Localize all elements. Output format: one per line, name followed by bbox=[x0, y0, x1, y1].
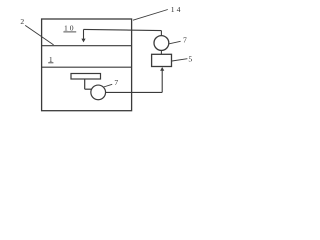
shelf / bracket inside tank bbox=[71, 74, 101, 80]
label 1 (underlined) bbox=[48, 55, 53, 64]
pipe: pump 7 down to unit 5 bbox=[160, 50, 162, 54]
return pipe from in-tank pump to unit 5 (with up arrow) bbox=[105, 67, 164, 92]
leader line for 5 bbox=[172, 59, 188, 61]
svg-text:5: 5 bbox=[188, 54, 192, 63]
leader line for 2 bbox=[25, 25, 53, 45]
label 10 (underlined) bbox=[63, 24, 76, 33]
tank partition line (upper) bbox=[42, 45, 132, 47]
leader line for 7 (external pump) bbox=[169, 41, 181, 44]
drop pipe from shelf to in-tank pump bbox=[85, 79, 92, 89]
feed pipe (horizontal run into tank) bbox=[84, 29, 162, 30]
pump 7 (external, upper right) bbox=[154, 36, 169, 51]
pump 7 (inside tank) bbox=[91, 85, 106, 100]
svg-text:10: 10 bbox=[64, 24, 76, 33]
svg-text:14: 14 bbox=[171, 5, 183, 14]
leader line for 14 bbox=[133, 10, 168, 21]
unit 5 box bbox=[152, 54, 172, 66]
svg-text:2: 2 bbox=[20, 17, 24, 26]
tank partition line (lower) bbox=[42, 66, 132, 68]
svg-text:7: 7 bbox=[114, 78, 118, 87]
pipe: feed line down to pump 7 bbox=[160, 31, 162, 36]
inlet arrow (down) at node 10 bbox=[81, 29, 85, 42]
leader line for 7 (in-tank pump) bbox=[104, 84, 113, 87]
svg-text:7: 7 bbox=[183, 35, 187, 44]
tank 1 outline bbox=[42, 19, 132, 111]
